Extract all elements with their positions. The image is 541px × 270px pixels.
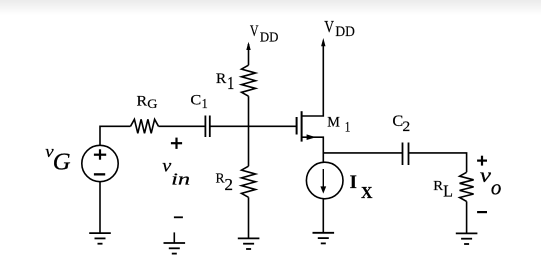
svg-text:1: 1: [227, 74, 234, 93]
svg-text:DD: DD: [260, 29, 279, 44]
svg-text:v: v: [45, 142, 53, 161]
svg-text:v: v: [162, 156, 171, 176]
svg-text:G: G: [147, 97, 158, 111]
svg-text:V: V: [324, 18, 334, 37]
svg-text:1: 1: [202, 95, 208, 111]
svg-text:R: R: [433, 179, 443, 194]
svg-text:C: C: [190, 92, 201, 108]
svg-text:o: o: [491, 175, 502, 200]
svg-text:in: in: [171, 169, 190, 189]
svg-text:2: 2: [224, 175, 233, 194]
svg-text:V: V: [250, 24, 259, 41]
svg-text:R: R: [215, 171, 224, 186]
svg-text:R: R: [216, 70, 227, 87]
svg-text:DD: DD: [335, 23, 354, 40]
svg-text:1: 1: [345, 119, 351, 135]
svg-text:G: G: [53, 149, 71, 176]
svg-text:2: 2: [402, 119, 410, 134]
svg-text:L: L: [443, 181, 453, 201]
svg-text:C: C: [392, 113, 403, 130]
svg-text:M: M: [327, 114, 340, 130]
svg-text:v: v: [480, 165, 492, 187]
svg-text:R: R: [136, 94, 148, 109]
svg-text:X: X: [361, 182, 373, 202]
svg-text:I: I: [350, 172, 357, 193]
